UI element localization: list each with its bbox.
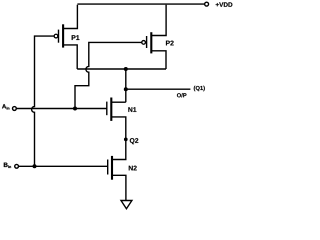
junction dot node Q2 xyxy=(124,138,128,142)
label P1 xyxy=(72,35,80,40)
nmos N1 xyxy=(107,98,126,160)
label Q2 xyxy=(130,138,139,144)
pmos P2 xyxy=(142,5,166,69)
junction dot B line xyxy=(33,164,37,168)
power terminal +VDD xyxy=(205,2,209,6)
label P2 xyxy=(166,41,174,46)
label Bin input xyxy=(4,163,11,168)
wire A line xyxy=(17,108,107,110)
wire output riser xyxy=(125,69,127,102)
label O/P xyxy=(177,93,187,97)
junction dot A line xyxy=(73,107,77,111)
label Ain input xyxy=(2,104,9,109)
wire VDD rail xyxy=(77,3,204,5)
wire node line P drains xyxy=(77,68,166,70)
wire output line xyxy=(126,88,191,90)
input terminal A xyxy=(13,107,17,111)
label N1 xyxy=(128,107,136,112)
input terminal B xyxy=(15,164,19,168)
label (Q1) output node xyxy=(194,86,205,91)
label +VDD xyxy=(216,2,233,6)
label N2 xyxy=(129,166,137,171)
nmos N2 xyxy=(108,156,126,201)
ground xyxy=(121,201,132,209)
junction dot P-drain node xyxy=(124,67,128,71)
junction dot output O/P xyxy=(124,87,128,91)
wire B line xyxy=(19,165,108,167)
wire A riser to P2 gate xyxy=(75,42,142,108)
wire B riser to P1 gate xyxy=(32,36,55,166)
pmos P1 xyxy=(54,5,77,69)
